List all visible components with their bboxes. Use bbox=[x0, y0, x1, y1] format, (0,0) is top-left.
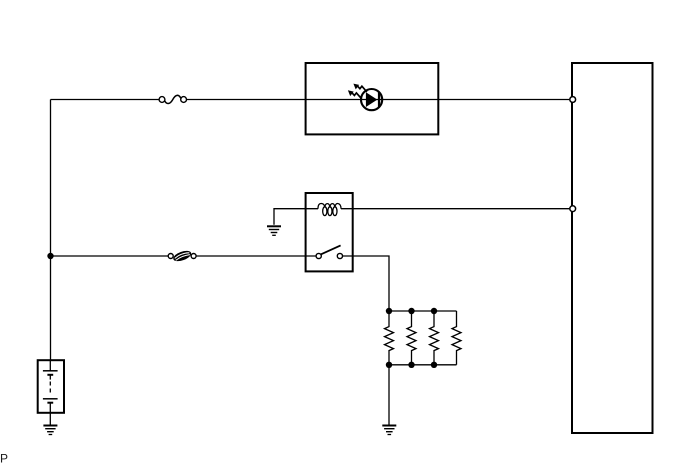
resistor top bus bbox=[389, 310, 457, 312]
resistor R3 bbox=[430, 311, 439, 365]
junction dot top 2 bbox=[408, 308, 414, 314]
resistor R2 bbox=[407, 311, 416, 365]
wire fuse to indicator box bbox=[186, 99, 305, 101]
left vertical wire bbox=[50, 100, 52, 361]
fusible link FL bbox=[168, 249, 196, 264]
battery cells bbox=[43, 361, 58, 413]
ground below resistors bbox=[382, 426, 396, 435]
LED light arrow 2 bbox=[348, 90, 362, 98]
terminal pin circle 1 bbox=[570, 97, 576, 103]
wire indicator box to ECU connector bbox=[439, 99, 569, 101]
terminal pin circle 2 bbox=[570, 206, 576, 212]
wire top-left horizontal bbox=[51, 99, 160, 101]
junction dot top 1 bbox=[386, 308, 392, 314]
resistor R4 bbox=[452, 311, 461, 365]
junction dot left bbox=[47, 253, 53, 259]
LED D1 bbox=[361, 89, 382, 110]
relay switch S1 bbox=[316, 245, 342, 258]
wire resistors to ground bbox=[388, 365, 390, 425]
wire bottom-left horizontal bbox=[51, 255, 169, 257]
resistor bottom bus bbox=[389, 364, 457, 366]
junction dot bottom 3 bbox=[431, 362, 437, 368]
wire coil left to ground bbox=[274, 209, 318, 225]
indicator lamp box bbox=[306, 63, 439, 134]
fuse F1 bbox=[159, 95, 186, 103]
resistor R1 bbox=[385, 311, 394, 365]
page code letter P bbox=[0, 452, 8, 463]
junction dot bottom 1 bbox=[386, 362, 392, 368]
junction dot top 3 bbox=[431, 308, 437, 314]
LED light arrow 1 bbox=[353, 84, 367, 92]
relay coil L1 bbox=[318, 203, 341, 215]
ECU box bbox=[572, 63, 653, 433]
svg-text:P: P bbox=[0, 452, 8, 463]
wire switch to resistor bank bbox=[343, 256, 390, 311]
wire coil to ECU pin bbox=[341, 208, 569, 210]
wire battery to ground bbox=[49, 412, 51, 425]
ground near relay bbox=[267, 226, 281, 235]
battery box bbox=[38, 360, 64, 413]
relay box bbox=[306, 193, 353, 271]
ground below battery bbox=[43, 426, 57, 435]
wire fusible link to relay bbox=[196, 255, 316, 257]
wire through indicator box bbox=[305, 99, 439, 101]
junction dot bottom 2 bbox=[408, 362, 414, 368]
